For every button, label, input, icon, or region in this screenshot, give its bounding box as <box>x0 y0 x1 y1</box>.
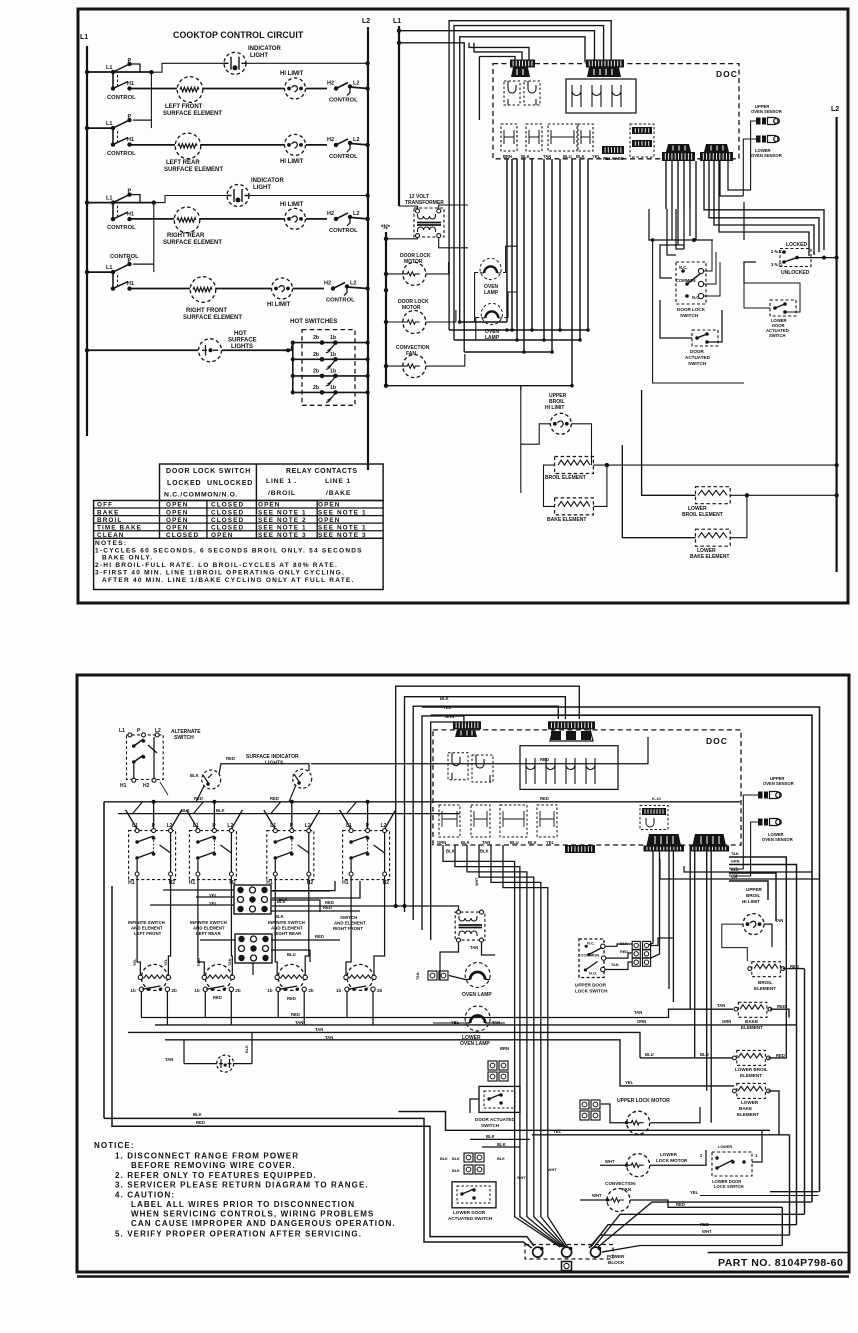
svg-text:H1: H1 <box>128 880 135 886</box>
svg-text:L2: L2 <box>353 211 359 217</box>
svg-text:YEL: YEL <box>690 1190 699 1195</box>
svg-text:BROIL: BROIL <box>746 893 760 898</box>
svg-text:3 N.O.: 3 N.O. <box>771 262 783 267</box>
switch control H2-L2 <box>334 217 338 221</box>
svg-text:BLU: BLU <box>287 952 296 957</box>
wire switch-element drops <box>137 876 140 975</box>
surface element 2 <box>205 964 231 990</box>
svg-text:SWITCH: SWITCH <box>680 313 699 318</box>
svg-text:TAN: TAN <box>295 1020 303 1025</box>
hi limit 1 <box>285 78 306 99</box>
svg-text:FAN: FAN <box>622 1187 632 1192</box>
wire udls no <box>605 962 632 970</box>
svg-text:L1: L1 <box>106 196 112 202</box>
wire nest top <box>449 21 611 330</box>
oven lamp B <box>465 1006 490 1031</box>
indicator light 2 <box>227 185 249 207</box>
svg-text:AFTER 40 MIN. LINE 1/BAKE CYCL: AFTER 40 MIN. LINE 1/BAKE CYCLING ONLY A… <box>102 577 355 584</box>
svg-text:GRN: GRN <box>637 1019 646 1024</box>
DOC box <box>493 64 739 159</box>
lower door actuated switch <box>452 1182 496 1208</box>
svg-text:PART NO. 8104P798-60: PART NO. 8104P798-60 <box>718 1257 843 1269</box>
door lock motor 2 <box>403 311 426 334</box>
switch control left-rear <box>111 126 115 130</box>
svg-text:RIGHT FRONT: RIGHT FRONT <box>333 926 363 931</box>
switch control H2-L2 <box>334 86 338 90</box>
svg-text:BLU: BLU <box>563 154 572 159</box>
wire drops to switches <box>126 810 138 829</box>
table door lock switch / relay contacts <box>160 464 384 501</box>
svg-text:WHT: WHT <box>605 1159 615 1164</box>
wire transformer to N <box>386 238 418 239</box>
svg-text:INFINITE SWITCH: INFINITE SWITCH <box>268 920 305 925</box>
svg-text:TAN: TAN <box>315 1027 323 1032</box>
relay cluster B2 <box>520 746 618 790</box>
svg-text:H1: H1 <box>127 281 134 287</box>
svg-text:OVEN LAMP: OVEN LAMP <box>460 1041 490 1047</box>
svg-text:CONTROL: CONTROL <box>326 298 355 304</box>
wire ind2 to L2 <box>249 195 368 197</box>
row3 main wire <box>85 200 89 204</box>
wire L2 bus <box>367 27 369 470</box>
svg-text:LOCK SWITCH: LOCK SWITCH <box>714 1184 744 1189</box>
infinite switch right front <box>343 831 390 880</box>
indicator light 1 <box>224 52 246 74</box>
svg-text:YEL: YEL <box>546 840 555 845</box>
surface indicator light 2 <box>293 769 312 788</box>
svg-text:BLK: BLK <box>190 773 199 778</box>
svg-text:BLK: BLK <box>497 1157 505 1161</box>
wire L1 to transformer <box>399 206 418 209</box>
wire left inner vert <box>103 802 105 1119</box>
wire grid right links <box>272 881 335 891</box>
relay D2 <box>640 806 668 830</box>
svg-text:LOCKED: LOCKED <box>786 242 808 248</box>
svg-text:K-10: K-10 <box>652 796 661 801</box>
svg-text:HI LIMIT: HI LIMIT <box>545 405 564 411</box>
svg-text:BLOCK: BLOCK <box>608 1260 625 1265</box>
connector block C <box>602 146 624 154</box>
svg-text:AND ELEMENT: AND ELEMENT <box>334 920 366 925</box>
svg-text:SWITCH: SWITCH <box>174 735 194 741</box>
svg-text:1: 1 <box>813 251 816 256</box>
svg-text:H1: H1 <box>127 212 134 218</box>
svg-text:NOTES:: NOTES: <box>95 540 127 547</box>
wire P jog row1 <box>130 64 141 72</box>
svg-text:ACTUATED: ACTUATED <box>685 355 711 360</box>
svg-text:CLEAN: CLEAN <box>97 532 125 539</box>
wire P row2 <box>133 119 151 121</box>
svg-text:BROIL: BROIL <box>758 980 772 985</box>
upper oven sensor <box>756 118 779 125</box>
svg-text:1b: 1b <box>330 385 336 391</box>
svg-text:LAMP: LAMP <box>484 290 499 296</box>
svg-text:INFINITE SWITCH: INFINITE SWITCH <box>190 920 227 925</box>
svg-text:BLK: BLK <box>461 840 470 845</box>
part number strip <box>708 1252 849 1254</box>
svg-text:HI LIMIT: HI LIMIT <box>280 71 304 77</box>
svg-text:YEL: YEL <box>625 1080 634 1085</box>
locked-unlocked switch <box>780 249 811 267</box>
svg-text:ELEMENT: ELEMENT <box>740 1073 762 1078</box>
svg-text:SURFACE ELEMENT: SURFACE ELEMENT <box>163 240 222 246</box>
upper oven sensor 2 <box>758 792 781 799</box>
svg-text:H1: H1 <box>189 880 196 886</box>
wire mid verticals <box>689 847 691 1009</box>
svg-text:CONTROL: CONTROL <box>107 95 136 101</box>
wire bake up <box>593 465 607 506</box>
surface element 4 <box>347 964 373 990</box>
svg-text:TAN: TAN <box>416 972 420 980</box>
connector E2 <box>644 846 685 852</box>
infinite switch right rear <box>267 831 314 880</box>
wire ldas in <box>744 283 770 308</box>
svg-text:1: 1 <box>755 1153 758 1158</box>
svg-text:SEE NOTE 3: SEE NOTE 3 <box>258 532 307 539</box>
relay row lower <box>501 124 517 151</box>
wire horizontal buses <box>386 385 572 387</box>
svg-text:1b: 1b <box>194 988 200 993</box>
wire right verticals (top panel) <box>743 202 745 240</box>
wire RED run to power block <box>112 886 534 1246</box>
switch control H2-L2 <box>334 143 338 147</box>
svg-text:ELEMENT: ELEMENT <box>754 986 776 991</box>
element left front <box>177 77 203 103</box>
wire to indicator light 2 <box>154 196 227 203</box>
surface indicator light 1 <box>202 770 221 789</box>
door activated switch <box>692 330 718 346</box>
svg-text:LIGHTS: LIGHTS <box>231 344 253 350</box>
svg-text:L2: L2 <box>831 106 839 113</box>
wire yel2 <box>637 1085 734 1087</box>
svg-text:P: P <box>128 114 132 120</box>
svg-text:HI LIMIT: HI LIMIT <box>742 899 760 904</box>
svg-text:2b: 2b <box>377 988 383 993</box>
lower broil element <box>696 487 731 504</box>
udls terminal strips <box>632 941 640 949</box>
terminal pair A <box>428 971 448 980</box>
wire grid2 links <box>271 939 340 941</box>
wire P row4 <box>133 263 154 265</box>
lower oven sensor <box>756 136 779 143</box>
svg-text:OPEN: OPEN <box>211 532 234 539</box>
svg-text:4. CAUTION:: 4. CAUTION: <box>115 1191 175 1200</box>
wire F nest right <box>704 161 824 250</box>
svg-text:/BROIL: /BROIL <box>268 490 296 497</box>
svg-text:SWITCH: SWITCH <box>481 1123 500 1128</box>
switch control H2-L2 <box>331 286 335 290</box>
wire n to dl motor2 <box>386 321 403 323</box>
svg-text:2: 2 <box>700 1153 703 1158</box>
svg-text:RED: RED <box>700 1222 709 1227</box>
svg-text:UPPER LOCK MOTOR: UPPER LOCK MOTOR <box>617 1098 670 1104</box>
svg-text:L1: L1 <box>106 65 112 71</box>
wire cluster loop <box>653 240 744 383</box>
svg-text:BAKE ONLY.: BAKE ONLY. <box>102 555 153 562</box>
wire dls1 <box>703 240 712 271</box>
svg-text:TAN: TAN <box>325 1035 333 1040</box>
wire lamp1 left <box>475 273 479 323</box>
svg-text:H2: H2 <box>327 81 334 87</box>
svg-text:H1: H1 <box>342 880 349 886</box>
svg-text:RED: RED <box>196 1120 205 1125</box>
svg-text:RED: RED <box>540 796 549 801</box>
svg-text:2b: 2b <box>313 352 319 358</box>
svg-text:COOKTOP CONTROL CIRCUIT: COOKTOP CONTROL CIRCUIT <box>173 30 304 40</box>
svg-text:CAN CAUSE IMPROPER AND DANGERO: CAN CAUSE IMPROPER AND DANGEROUS OPERATI… <box>131 1219 396 1228</box>
svg-text:SWITCH: SWITCH <box>340 915 357 920</box>
svg-text:YEL: YEL <box>209 893 218 898</box>
row2 main wire <box>85 126 89 130</box>
svg-text:MOTOR: MOTOR <box>404 259 423 265</box>
hot switches box <box>302 330 355 406</box>
svg-text:UPPER: UPPER <box>746 887 763 892</box>
wire yel/blk lines <box>532 1134 790 1136</box>
svg-text:DOOR LOCK: DOOR LOCK <box>677 307 706 312</box>
clock motor <box>184 1063 217 1065</box>
svg-text:SURFACE ELEMENT: SURFACE ELEMENT <box>164 167 223 173</box>
svg-text:POWER: POWER <box>607 1254 625 1259</box>
svg-text:ELEMENT: ELEMENT <box>737 1112 759 1117</box>
svg-text:/BAKE: /BAKE <box>326 490 351 497</box>
connector C2 <box>565 845 595 853</box>
svg-text:GRN: GRN <box>437 840 446 845</box>
lower bake element <box>696 529 731 546</box>
wire sens1 <box>735 795 758 869</box>
svg-text:CONVECTION: CONVECTION <box>605 1181 636 1186</box>
svg-text:TAN: TAN <box>731 852 739 856</box>
wire lamp1 right <box>503 246 517 272</box>
wire blu <box>640 1057 734 1059</box>
svg-text:P: P <box>128 58 132 64</box>
svg-text:LOCKED: LOCKED <box>167 480 201 487</box>
svg-text:BLK: BLK <box>245 1045 249 1053</box>
wire element rights <box>783 968 805 970</box>
svg-text:DOC: DOC <box>716 69 738 79</box>
svg-text:AND ELEMENT: AND ELEMENT <box>131 925 163 930</box>
svg-text:RED: RED <box>620 950 628 954</box>
svg-text:2 N.C.: 2 N.C. <box>771 249 783 254</box>
svg-text:BRN: BRN <box>503 154 512 159</box>
oven lamp A <box>465 963 490 988</box>
svg-text:H2: H2 <box>324 281 331 287</box>
svg-text:SWITCH: SWITCH <box>688 361 707 366</box>
svg-text:2b: 2b <box>313 335 319 341</box>
wire BLK run to power block <box>104 1118 532 1248</box>
svg-text:LOCK SWITCH: LOCK SWITCH <box>575 989 608 994</box>
svg-text:RIGHT REAR: RIGHT REAR <box>274 931 302 936</box>
wire sensor1 <box>751 121 756 190</box>
svg-text:N.C./COMMON/N.O.: N.C./COMMON/N.O. <box>164 492 238 499</box>
wire yel right <box>700 1195 819 1197</box>
svg-text:3-FIRST 40 MIN. LINE 1/BROIL O: 3-FIRST 40 MIN. LINE 1/BROIL OPERATING O… <box>95 570 345 577</box>
connector grid 1 <box>234 885 271 914</box>
svg-text:WHEN SERVICING CONTROLS, WIRIN: WHEN SERVICING CONTROLS, WIRING PROBLEMS <box>131 1210 374 1219</box>
svg-text:1. DISCONNECT RANGE FROM POWER: 1. DISCONNECT RANGE FROM POWER <box>115 1152 299 1161</box>
svg-text:2b: 2b <box>313 368 319 374</box>
connector grid 2 <box>235 934 272 963</box>
svg-text:YEL: YEL <box>209 901 218 906</box>
svg-text:L2: L2 <box>362 18 370 25</box>
svg-text:1b: 1b <box>330 352 336 358</box>
wire lbroil to L2 <box>730 494 836 496</box>
wire vert 622 <box>622 445 695 538</box>
svg-text:SURFACE INDICATOR: SURFACE INDICATOR <box>246 754 299 760</box>
svg-text:MOTOR: MOTOR <box>402 305 421 311</box>
wire lamp2 left <box>476 318 480 341</box>
relay row lower 2 <box>439 805 460 837</box>
svg-text:BLK: BLK <box>279 897 288 902</box>
wire buses below elements <box>141 1009 733 1017</box>
lower oven sensor 2 <box>758 819 781 826</box>
relay D <box>630 124 654 157</box>
wire N bus <box>385 232 387 386</box>
wire ubhl2 <box>722 924 748 961</box>
connector block A <box>510 60 535 68</box>
svg-text:*N*: *N* <box>381 225 391 231</box>
terminal rows lower door <box>464 1153 484 1162</box>
wire L2 oven bus <box>835 117 837 572</box>
svg-text:LINE 1: LINE 1 <box>325 478 351 485</box>
wire udls nc <box>605 944 632 946</box>
svg-text:INDICATOR: INDICATOR <box>248 46 281 52</box>
svg-text:BLK: BLK <box>452 1157 460 1161</box>
svg-text:RELAY BD: RELAY BD <box>603 156 624 161</box>
svg-text:LOWER BROIL: LOWER BROIL <box>735 1067 768 1072</box>
svg-text:BROIL ELEMENT: BROIL ELEMENT <box>682 512 723 518</box>
wire udls common <box>606 953 633 958</box>
svg-text:BLK: BLK <box>440 696 449 701</box>
wire row1 to row2 P <box>150 72 152 128</box>
svg-text:OVEN LAMP: OVEN LAMP <box>462 992 492 998</box>
svg-text:BLK: BLK <box>521 154 530 159</box>
wire light1 down <box>196 786 204 802</box>
wire element bottoms <box>140 991 142 1018</box>
svg-text:BLK: BLK <box>440 1157 448 1161</box>
wire grid1 links <box>163 889 234 891</box>
svg-text:RED: RED <box>291 1012 300 1017</box>
svg-text:BLK: BLK <box>497 1142 506 1147</box>
svg-text:2-HI BROIL-FULL RATE. LO BROIL: 2-HI BROIL-FULL RATE. LO BROIL-CYCLES AT… <box>95 562 338 569</box>
svg-text:BLK: BLK <box>216 808 225 813</box>
svg-text:DOOR: DOOR <box>690 349 704 354</box>
svg-text:GRN: GRN <box>731 860 740 864</box>
relay cluster 2 <box>566 79 636 113</box>
svg-text:BEFORE REMOVING WIRE COVER.: BEFORE REMOVING WIRE COVER. <box>131 1161 296 1170</box>
svg-text:TAN: TAN <box>634 1010 642 1015</box>
svg-text:CLOSED: CLOSED <box>166 532 199 539</box>
wire right joiners <box>804 969 806 1215</box>
wire ind lights run <box>219 764 295 774</box>
svg-text:1b: 1b <box>330 335 336 341</box>
svg-text:BLK: BLK <box>446 849 455 854</box>
top panel border <box>78 9 848 603</box>
wire transformer right <box>439 205 468 209</box>
wire lampB right <box>490 1022 505 1024</box>
svg-text:LEFT FRONT: LEFT FRONT <box>134 931 162 936</box>
svg-text:HI LIMIT: HI LIMIT <box>280 159 304 165</box>
wire sensor2 <box>743 139 756 196</box>
svg-text:INDICATOR: INDICATOR <box>251 178 284 184</box>
svg-text:1b: 1b <box>267 988 273 993</box>
svg-text:H1: H1 <box>127 137 134 143</box>
svg-text:WHT: WHT <box>548 1168 557 1172</box>
svg-text:OVEN SENSOR: OVEN SENSOR <box>762 837 793 842</box>
element right front <box>190 277 216 303</box>
wire WHT runs right <box>684 866 812 872</box>
svg-text:AND ELEMENT: AND ELEMENT <box>193 925 225 930</box>
svg-text:1b: 1b <box>330 368 336 374</box>
bake element <box>555 498 594 515</box>
svg-text:BLK: BLK <box>193 1112 202 1117</box>
svg-text:RIGHT FRONT: RIGHT FRONT <box>186 308 227 314</box>
svg-text:SURFACE: SURFACE <box>228 338 257 344</box>
wire ldas loop <box>744 283 800 312</box>
connector block F <box>700 152 733 161</box>
wire fan-out from E F <box>665 161 667 209</box>
svg-text:SURFACE ELEMENT: SURFACE ELEMENT <box>183 315 242 321</box>
svg-text:TAN: TAN <box>543 154 551 159</box>
door lock switch <box>649 209 713 240</box>
svg-text:OVEN SENSOR: OVEN SENSOR <box>751 153 782 158</box>
svg-text:SWITCH: SWITCH <box>769 333 786 338</box>
svg-text:TAN: TAN <box>717 1003 725 1008</box>
svg-text:YEL: YEL <box>592 154 601 159</box>
relay cluster A2 <box>448 753 468 780</box>
svg-text:BLK: BLK <box>576 154 585 159</box>
infinite switch left front <box>129 831 176 880</box>
wire ubhl left <box>521 424 551 444</box>
svg-text:LOWER DOOR: LOWER DOOR <box>453 1210 486 1215</box>
svg-text:2b: 2b <box>308 988 314 993</box>
svg-text:BAKE ELEMENT: BAKE ELEMENT <box>690 554 729 560</box>
wire dls3 <box>703 262 720 296</box>
svg-text:BLK: BLK <box>452 1169 460 1173</box>
svg-text:RED: RED <box>270 796 279 801</box>
surface element 3 <box>278 964 304 990</box>
wire fan out <box>426 354 465 366</box>
svg-text:TAN: TAN <box>470 945 478 950</box>
wire right bends to pb <box>602 1246 782 1253</box>
surface element 1 <box>141 964 167 990</box>
row4 element wire <box>130 288 190 290</box>
wire dl motor2 out <box>426 310 456 322</box>
wire broil-bake left <box>544 465 555 506</box>
upper door lock switch <box>579 939 604 978</box>
svg-text:UNLOCKED: UNLOCKED <box>781 270 810 276</box>
svg-text:P: P <box>137 728 141 734</box>
svg-text:UNLOCKED: UNLOCKED <box>207 480 253 487</box>
connector block E <box>662 152 695 161</box>
wire L1 oven bus <box>398 26 400 206</box>
svg-text:ELEMENT: ELEMENT <box>741 1025 763 1030</box>
svg-text:TAN: TAN <box>775 918 783 923</box>
DOC box 2 <box>433 730 741 845</box>
svg-text:RED: RED <box>315 934 324 939</box>
hi limit 3 <box>285 208 306 229</box>
svg-text:SEE NOTE 3: SEE NOTE 3 <box>318 532 367 539</box>
svg-text:YEL: YEL <box>164 958 168 966</box>
svg-text:CONTROL: CONTROL <box>107 151 136 157</box>
svg-text:WHT: WHT <box>517 1176 526 1180</box>
svg-text:TAN: TAN <box>611 963 619 967</box>
svg-text:H2: H2 <box>327 137 334 143</box>
svg-text:L1: L1 <box>80 34 88 41</box>
svg-text:GRN: GRN <box>722 1019 731 1024</box>
svg-text:LEFT REAR: LEFT REAR <box>196 931 221 936</box>
lower door activated switch <box>770 300 796 316</box>
transformer 2 <box>455 912 485 940</box>
